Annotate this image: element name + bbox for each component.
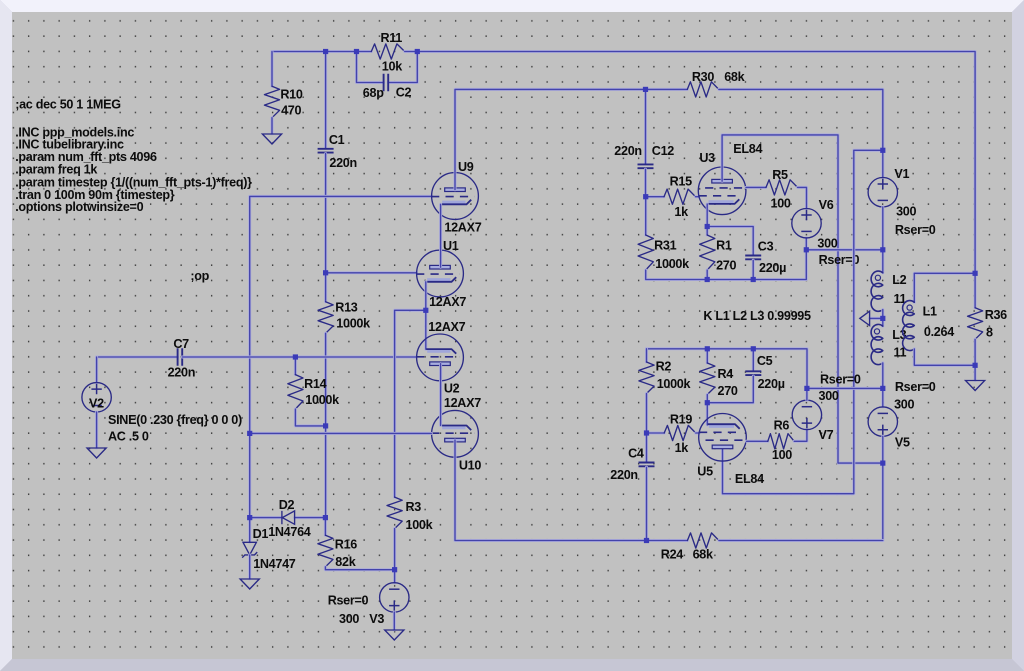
label 300 V5: [894, 397, 914, 411]
wire C5 top lead: [752, 349, 755, 371]
wire C7 to U2 grid: [182, 356, 416, 359]
node top-rail C1 junction: [323, 49, 328, 54]
wire V2 to C7: [97, 356, 178, 359]
svg-text:D2: D2: [279, 498, 295, 512]
label R13: [335, 301, 357, 315]
wire C2 right leg: [388, 52, 417, 83]
inductor L1: [903, 301, 915, 351]
wire U1 grid: [326, 271, 417, 274]
svg-text:L1: L1: [923, 305, 937, 319]
svg-text:0.264: 0.264: [924, 325, 954, 339]
svg-text:220µ: 220µ: [759, 261, 786, 275]
label D1: [253, 527, 269, 541]
label 220n C7: [168, 365, 196, 379]
label C7: [173, 337, 189, 351]
wire R16 bottom to V3 node: [325, 567, 394, 570]
svg-text:R13: R13: [335, 301, 357, 315]
label EL84 U5: [735, 472, 764, 486]
svg-text:R6: R6: [774, 419, 790, 433]
wire R31 bottom and cathode rail: [646, 238, 807, 280]
svg-text:EL84: EL84: [735, 472, 764, 486]
label 68k R30: [724, 70, 745, 84]
svg-text:68k: 68k: [724, 70, 745, 84]
label 1000k R14: [305, 393, 340, 407]
svg-text:12AX7: 12AX7: [444, 396, 481, 410]
label 100 R5: [771, 196, 791, 210]
label 1000k R2: [657, 377, 692, 391]
svg-text:R2: R2: [656, 360, 672, 374]
label Rser=0 V5: [895, 380, 936, 394]
label 1k R15: [674, 205, 689, 219]
svg-text:300: 300: [339, 612, 359, 626]
node R1 bottom junction: [705, 277, 710, 282]
svg-text:220n: 220n: [614, 144, 642, 158]
label C5: [757, 354, 773, 368]
voltage source V2: [82, 383, 111, 412]
resistor R1: [700, 235, 715, 270]
inductor L2: [871, 271, 883, 311]
node R15/R31 junction: [643, 194, 648, 199]
wire D1 bottom lead: [248, 555, 251, 579]
wire R1 bottom lead: [706, 270, 709, 280]
label 12AX7 U9: [444, 220, 481, 234]
label R5: [772, 168, 788, 182]
label U9: [458, 160, 474, 174]
svg-text:270: 270: [718, 384, 738, 398]
directive .INC tubelibrary: [15, 137, 124, 151]
node diode net right junction: [323, 515, 328, 520]
wire C2 left leg: [357, 52, 384, 83]
svg-text:EL84: EL84: [733, 142, 762, 156]
node center tap junction: [880, 316, 885, 321]
wire U10 plate down to R24 rail: [455, 440, 687, 540]
label 1000k R31: [655, 257, 690, 271]
svg-text:V7: V7: [819, 428, 834, 442]
resistor R10: [264, 86, 279, 118]
wire top rail left segment: [272, 50, 371, 53]
svg-text:AC .5 0: AC .5 0: [108, 430, 149, 444]
svg-text:R4: R4: [718, 367, 734, 381]
wire R5 to V6 top: [798, 187, 807, 208]
svg-text:C2: C2: [396, 86, 412, 100]
svg-text:R19: R19: [670, 413, 692, 427]
label V1: [894, 167, 909, 181]
wire R6 left lead: [747, 440, 768, 443]
node V7 top junction: [804, 386, 809, 391]
svg-text:C5: C5: [757, 354, 773, 368]
svg-text:1000k: 1000k: [657, 377, 692, 391]
capacitor C7: [178, 348, 183, 365]
directive .tran: [15, 188, 175, 202]
pentode U5 (mirrored): [699, 414, 747, 462]
svg-text:U1: U1: [443, 239, 459, 253]
svg-text:8: 8: [986, 325, 993, 339]
wire C12 bottom lead: [644, 169, 647, 197]
wire V7 node to L3 node: [807, 387, 883, 390]
resistor R13: [318, 302, 333, 334]
capacitor C3: [745, 256, 761, 260]
wire R3 to V3: [393, 529, 396, 583]
svg-text:R30: R30: [692, 70, 714, 84]
svg-text:68k: 68k: [693, 548, 714, 562]
svg-text:300: 300: [894, 397, 914, 411]
wire R31 top lead: [644, 197, 647, 235]
svg-text:1000k: 1000k: [305, 393, 340, 407]
svg-text:100: 100: [772, 448, 792, 462]
wire R2 bottom to C4: [645, 394, 648, 462]
wire lower rail: [647, 349, 808, 389]
svg-text:12AX7: 12AX7: [444, 220, 481, 234]
svg-text:1k: 1k: [675, 441, 690, 455]
wire U9 plate to R30 rail: [455, 89, 687, 189]
label Rser=0 V6: [819, 253, 860, 267]
label 220u C5: [758, 377, 785, 391]
center tap arrow: [860, 311, 870, 325]
wire C12 top lead: [644, 89, 647, 163]
label C1: [329, 133, 345, 147]
label 12AX7 U2: [428, 320, 465, 334]
label 12AX7 U1: [429, 295, 466, 309]
svg-text:1N4764: 1N4764: [268, 525, 311, 539]
svg-text:C12: C12: [652, 144, 674, 158]
capacitor C5: [745, 371, 761, 375]
voltage source V3 (mirrored): [380, 583, 409, 612]
label D2: [279, 498, 295, 512]
node V1 bottom junction: [880, 247, 885, 252]
label C3: [758, 239, 774, 253]
label Rser=0 V7: [820, 373, 861, 387]
label R10: [280, 88, 302, 102]
label 270 R1: [716, 259, 736, 273]
node U3 cathode junction: [705, 224, 710, 229]
node C12 top junction: [643, 87, 648, 92]
resistor R5: [766, 180, 798, 195]
phase dot L2: [875, 275, 880, 280]
voltage source V1: [868, 178, 897, 207]
svg-text:300: 300: [817, 237, 837, 251]
wire U1 cathode down: [424, 282, 427, 349]
wire R14 bottom jog: [295, 409, 325, 426]
resistor R36: [968, 308, 983, 340]
label 300 V7: [819, 389, 839, 403]
label 1N4764: [268, 525, 311, 539]
wire R14 top lead: [294, 357, 297, 375]
label 1k R19: [675, 441, 690, 455]
label C12: [652, 144, 674, 158]
label R15: [670, 175, 692, 189]
wire U9 grid and left vertical: [250, 196, 432, 517]
wire R36 to ground: [974, 365, 977, 380]
wire R19 left lead: [647, 432, 665, 435]
svg-text:12AX7: 12AX7: [428, 320, 465, 334]
wire R10 bottom lead: [271, 118, 274, 134]
phase dot L1: [907, 305, 912, 310]
node R4 bottom junction: [705, 400, 710, 405]
label 100k R3: [406, 518, 434, 532]
label 10k: [382, 60, 403, 74]
wire L1 top link: [914, 273, 975, 302]
svg-text:C7: C7: [173, 337, 189, 351]
svg-text:;op: ;op: [190, 269, 209, 283]
wire R30 to V1 corner: [719, 89, 883, 150]
label 220n C12: [614, 144, 642, 158]
label R30: [692, 70, 714, 84]
ground under D1: [240, 579, 259, 589]
svg-text:220n: 220n: [168, 365, 196, 379]
zener diode D1 (pointing down): [242, 542, 257, 557]
svg-text:100: 100: [771, 196, 791, 210]
svg-text:.options plotwinsize=0: .options plotwinsize=0: [15, 200, 143, 214]
resistor R15: [664, 189, 696, 204]
wire V6 bottom node rail: [806, 248, 883, 251]
wire R19 right lead: [696, 432, 699, 435]
wire U1 grid node to R13: [324, 273, 327, 302]
label R16: [335, 538, 357, 552]
label AC: [108, 430, 149, 444]
node top-rail C2 right junction: [415, 49, 420, 54]
label L2: [892, 273, 906, 287]
label R14: [304, 377, 326, 391]
resistor R6: [768, 434, 794, 449]
wire V2 bottom lead: [95, 412, 98, 448]
svg-text:220µ: 220µ: [758, 377, 785, 391]
svg-text:V5: V5: [895, 435, 910, 449]
svg-text:100k: 100k: [406, 518, 434, 532]
label R31: [654, 238, 676, 252]
svg-text:U10: U10: [459, 459, 481, 473]
node diode net left junction: [247, 515, 252, 520]
node V1 top junction: [880, 148, 885, 153]
capacitor C2: [384, 74, 389, 91]
svg-text:220n: 220n: [610, 468, 638, 482]
wire V2 top lead: [95, 357, 98, 383]
label R36: [985, 308, 1007, 322]
label 68p: [363, 86, 384, 100]
pentode U3: [698, 167, 746, 215]
ground under V2: [87, 448, 106, 458]
wire center tap stub: [870, 317, 883, 320]
capacitor C12: [638, 164, 654, 168]
label U3: [699, 151, 715, 165]
wire V1 top lead: [881, 150, 884, 177]
svg-text:10k: 10k: [382, 60, 403, 74]
wire U3 cathode lead: [706, 204, 709, 227]
label 1000k R13: [336, 316, 371, 330]
label U2: [444, 382, 460, 396]
svg-text:82k: 82k: [335, 555, 356, 569]
label R2: [656, 360, 672, 374]
resistor R16: [318, 535, 333, 567]
wire V5 bottom to R24 rail: [881, 436, 884, 540]
svg-text:1k: 1k: [674, 205, 689, 219]
svg-text:68p: 68p: [363, 86, 384, 100]
node R36 top junction: [973, 271, 978, 276]
wire C5 bottom jog: [707, 376, 753, 403]
svg-text:1N4747: 1N4747: [253, 557, 296, 571]
label 12AX7 U10: [444, 396, 481, 410]
label Rser=0 V1: [895, 223, 936, 237]
svg-text:L2: L2: [892, 273, 906, 287]
svg-text:U3: U3: [699, 151, 715, 165]
svg-text:1000k: 1000k: [336, 316, 371, 330]
node x250 grid junction: [247, 431, 252, 436]
svg-text:R11: R11: [381, 31, 403, 45]
triode U1: [416, 250, 463, 297]
wire U9 cathode to U1 plate: [439, 204, 442, 267]
svg-text:SINE(0 .230 {freq} 0 0 0): SINE(0 .230 {freq} 0 0 0): [108, 413, 242, 427]
node top-rail C2 left junction: [354, 49, 359, 54]
node cathode junction: [423, 308, 428, 313]
node R14 top junction: [293, 354, 298, 359]
svg-text:K L1 L2 L3 0.99995: K L1 L2 L3 0.99995: [703, 309, 811, 323]
label U5: [697, 465, 713, 479]
label K statement: [703, 309, 811, 323]
svg-text:470: 470: [281, 104, 301, 118]
resistor R14: [288, 375, 303, 409]
svg-text:R1: R1: [716, 239, 732, 253]
wire C4 bottom lead: [645, 467, 648, 540]
label 11 L3: [894, 346, 907, 360]
svg-text:U2: U2: [444, 382, 460, 396]
wire C1 to U1-grid node: [324, 154, 327, 273]
svg-text:300: 300: [819, 389, 839, 403]
triode U2 (mirrored): [416, 334, 463, 381]
inductor L3: [871, 324, 883, 364]
label R19: [670, 413, 692, 427]
label 8 R36: [986, 325, 993, 339]
svg-text:R16: R16: [335, 538, 357, 552]
svg-text:R5: R5: [772, 168, 788, 182]
resistor R3: [387, 497, 402, 528]
wire R4 bottom lead: [706, 395, 709, 403]
directive .options: [15, 200, 143, 214]
wire R4 top lead: [706, 349, 709, 363]
label 68k R24: [693, 548, 714, 562]
label R24: [661, 548, 683, 562]
wire diode net right: [295, 516, 326, 519]
wire D1 top lead: [248, 518, 251, 543]
node C3 bottom junction: [751, 277, 756, 282]
label 100 R6: [772, 448, 792, 462]
label 220n C1: [329, 156, 357, 170]
wire V1 bottom to L2: [881, 207, 884, 273]
wire U10 grid: [250, 432, 432, 435]
triode U9: [431, 173, 478, 220]
svg-text:R24: R24: [661, 548, 683, 562]
wire U2 plate to U10 cathode: [439, 364, 442, 426]
directive ;ac: [15, 98, 121, 112]
wire V1-node to U5 plate (left long vertical): [723, 150, 883, 493]
svg-text:D1: D1: [253, 527, 269, 541]
wire L1 bottom link: [914, 349, 975, 365]
resistor R24: [687, 533, 719, 548]
svg-text:1000k: 1000k: [655, 257, 690, 271]
capacitor C1: [318, 149, 334, 153]
wire V7 top lead: [805, 388, 808, 400]
label 270 R4: [718, 384, 738, 398]
wire R16 top lead: [324, 518, 327, 536]
wire R2 top lead: [645, 349, 648, 362]
label C4: [628, 446, 644, 460]
label V6: [819, 198, 834, 212]
wire R10 top lead: [271, 52, 274, 87]
label V5: [895, 435, 910, 449]
node R19 junction: [644, 430, 649, 435]
node C4 bottom junction: [644, 538, 649, 543]
node R36 bottom junction: [973, 363, 978, 368]
svg-text:12AX7: 12AX7: [429, 295, 466, 309]
label V7: [819, 428, 834, 442]
svg-text:V1: V1: [894, 167, 909, 181]
node R14 bottom junction: [323, 423, 328, 428]
directive ;op: [190, 269, 209, 283]
svg-text:R10: R10: [280, 88, 302, 102]
svg-text:R3: R3: [406, 500, 422, 514]
label U10: [459, 459, 481, 473]
wire V3 bottom lead: [393, 612, 396, 630]
wire R15 right lead: [696, 195, 700, 198]
svg-text:V2: V2: [89, 397, 104, 411]
wire top rail right segment down to R36 node: [405, 52, 975, 274]
svg-text:Rser=0: Rser=0: [328, 594, 369, 608]
wire R36 top lead: [974, 273, 977, 308]
label 220n C4: [610, 468, 638, 482]
svg-text:Rser=0: Rser=0: [820, 373, 861, 387]
svg-text:C4: C4: [628, 446, 644, 460]
resistor R30: [687, 82, 719, 97]
node L3 bottom junction: [880, 386, 885, 391]
label L3: [892, 328, 906, 342]
svg-text:300: 300: [896, 205, 916, 219]
label V2: [89, 397, 104, 411]
capacitor C4: [639, 463, 655, 467]
directive .param freq: [15, 163, 98, 177]
svg-text:R31: R31: [654, 238, 676, 252]
label Rser=0 V3: [328, 594, 369, 608]
svg-text:U9: U9: [458, 160, 474, 174]
wire R24 right segment: [719, 539, 883, 542]
voltage source V5 (mirrored): [868, 407, 897, 436]
wire L3 to V5: [881, 363, 884, 407]
svg-text:V3: V3: [369, 612, 384, 626]
wire C1 top lead: [324, 52, 327, 149]
label L1: [923, 305, 937, 319]
node V6 bottom junction: [804, 247, 809, 252]
wire R13 down to diode node: [324, 333, 327, 517]
svg-text:R36: R36: [985, 308, 1007, 322]
ground under R10: [262, 134, 281, 144]
label 11 L2: [894, 292, 907, 306]
label C2: [396, 86, 412, 100]
label EL84 U3: [733, 142, 762, 156]
resistor R2: [639, 362, 654, 394]
wire R6 to V7 bottom: [794, 430, 807, 442]
phase dot L3: [874, 329, 879, 334]
svg-text:270: 270: [716, 259, 736, 273]
svg-text:C1: C1: [329, 133, 345, 147]
resistor R11: [371, 44, 404, 59]
svg-text:V6: V6: [819, 198, 834, 212]
triode U10 (mirrored): [431, 410, 478, 457]
svg-text:U5: U5: [697, 465, 713, 479]
label V3: [369, 612, 384, 626]
label SINE: [108, 413, 242, 427]
wire C3 top branch: [707, 227, 753, 255]
label U1: [443, 239, 459, 253]
svg-text:Rser=0: Rser=0: [895, 223, 936, 237]
voltage source V7 (mirrored): [792, 400, 821, 429]
svg-text:L3: L3: [892, 328, 906, 342]
